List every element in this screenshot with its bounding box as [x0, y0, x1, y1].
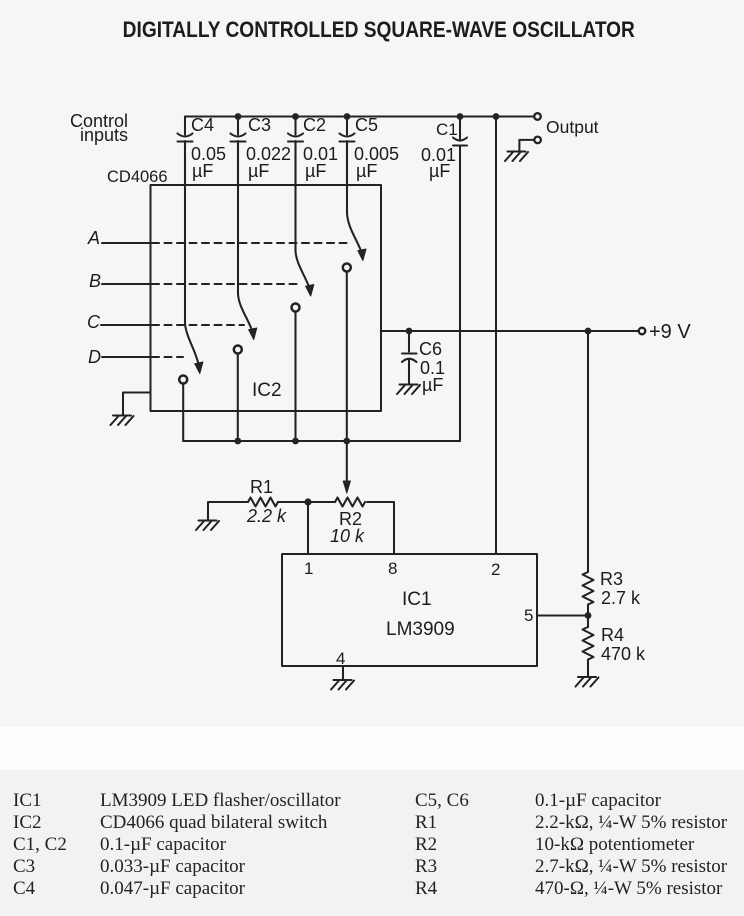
svg-text:470 k: 470 k	[601, 644, 646, 664]
svg-text:µF: µF	[305, 161, 326, 181]
svg-text:µF: µF	[248, 161, 269, 181]
svg-text:R3: R3	[600, 569, 623, 589]
svg-text:R2: R2	[339, 509, 362, 529]
svg-text:C5: C5	[355, 115, 378, 135]
svg-text:4: 4	[336, 649, 345, 668]
svg-text:µF: µF	[429, 161, 450, 181]
svg-text:2: 2	[491, 560, 500, 579]
svg-text:IC2: IC2	[252, 380, 282, 401]
svg-text:C3: C3	[248, 115, 271, 135]
svg-text:µF: µF	[192, 161, 213, 181]
svg-text:C2: C2	[303, 115, 326, 135]
svg-text:B: B	[89, 271, 101, 291]
svg-text:C1: C1	[436, 120, 458, 139]
svg-text:R1: R1	[250, 477, 273, 497]
svg-text:10 k: 10 k	[330, 526, 365, 546]
svg-text:A: A	[87, 228, 100, 248]
svg-text:CD4066: CD4066	[107, 168, 168, 186]
svg-text:C6: C6	[419, 339, 442, 359]
svg-text:5: 5	[524, 606, 533, 625]
svg-text:LM3909: LM3909	[386, 619, 455, 640]
svg-text:IC1: IC1	[402, 589, 432, 610]
svg-text:C4: C4	[191, 115, 214, 135]
svg-text:+9 V: +9 V	[649, 321, 691, 343]
svg-text:Output: Output	[546, 117, 599, 137]
svg-text:µF: µF	[422, 375, 443, 395]
svg-text:2.7 k: 2.7 k	[601, 588, 641, 608]
svg-text:µF: µF	[356, 161, 377, 181]
svg-text:R4: R4	[601, 625, 624, 645]
svg-text:8: 8	[388, 559, 397, 578]
svg-text:D: D	[88, 347, 101, 367]
svg-text:2.2 k: 2.2 k	[246, 506, 287, 526]
svg-text:C: C	[87, 312, 101, 332]
svg-text:inputs: inputs	[80, 125, 128, 145]
svg-text:1: 1	[304, 559, 313, 578]
